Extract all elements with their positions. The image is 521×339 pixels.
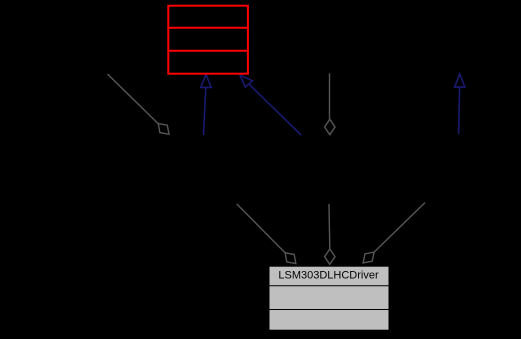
class box LSM303DLHCDriver (main class, gray filled, 3 compartments) [269, 266, 390, 330]
node E: open triangle arrowhead of edge E [455, 74, 465, 87]
node B: open triangle arrowhead of edge B [201, 74, 212, 87]
node A: open diamond of edge A [158, 124, 169, 135]
wire: inheritance edge C line (middle box to red box corner) [249, 84, 301, 135]
node G: open diamond of edge G [325, 249, 335, 264]
class box (red truncated class, 3 compartments) [167, 6, 249, 74]
wire: aggregation edge F line (left middle box down to LSM303DLHCDriver) [237, 204, 285, 253]
node H: open diamond of edge H [363, 252, 374, 263]
wire: aggregation edge A line (top-left box to left middle box) [108, 74, 159, 124]
node F: open diamond of edge F [285, 253, 296, 264]
svg-text:LSM303DLHCDriver: LSM303DLHCDriver [278, 270, 379, 282]
node C: open triangle arrowhead of edge C [240, 75, 253, 87]
wire: aggregation edge H line (right middle box down to LSM303DLHCDriver) [374, 203, 425, 253]
node D: open diamond of edge D [325, 119, 335, 134]
wire: aggregation edge D line (top middle box to middle box) [329, 73, 331, 119]
wire: aggregation edge G line (middle box down to LSM303DLHCDriver) [328, 204, 331, 249]
wire: inheritance edge E line (right middle box to top right box) [459, 88, 460, 135]
wire: inheritance edge B line (left middle box to red box) [204, 88, 206, 136]
